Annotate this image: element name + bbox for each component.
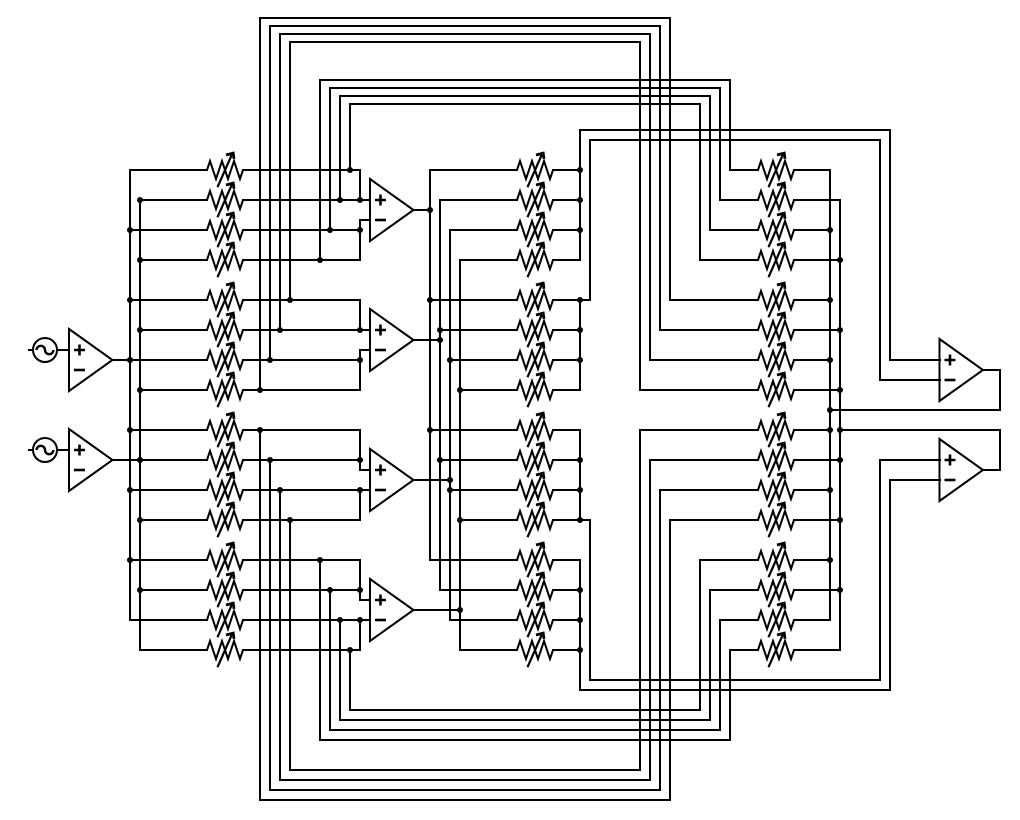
- wire M1 output: [413, 209, 430, 211]
- wire bank1 row7 left lead: [130, 359, 207, 361]
- wire loop row11 bottom: [280, 779, 650, 781]
- junction even bus y520: [837, 517, 843, 523]
- wire bank3 row8 left lead: [640, 389, 758, 391]
- bus bank2 rows5-8: [579, 300, 581, 390]
- wire bank1 row5 right lead: [243, 299, 360, 301]
- wire jog rows9-12: [580, 519, 590, 521]
- wire R1- input: [880, 379, 940, 381]
- wire loop row5 top: [290, 41, 640, 43]
- junction M4+ node: [357, 587, 363, 593]
- variable resistor W2.8: [517, 373, 553, 407]
- wire rows9-12 to R2+ route: [589, 520, 591, 680]
- wire loop row9 right: [669, 520, 671, 800]
- wire bank1 row14 right lead: [243, 589, 360, 591]
- junction bank2 bus y620: [577, 617, 583, 623]
- wire bank2 row4 right lead: [553, 259, 580, 261]
- wire bank1 row11 right lead: [243, 489, 360, 491]
- wire loop row11 right: [649, 460, 651, 780]
- wire bank3 row9 right lead: [794, 429, 830, 431]
- wire bank2 row14 left lead: [440, 589, 517, 591]
- AC source V2: [28, 438, 57, 462]
- wire row12 riser to M3- node: [359, 490, 361, 520]
- wire bank1 row13 left lead: [130, 559, 207, 561]
- junction row10 tap: [267, 457, 273, 463]
- variable resistor W3.11: [758, 473, 794, 507]
- wire loop row15 left: [339, 620, 341, 720]
- bus1 (A1 output column): [129, 170, 131, 620]
- junction even bus y460: [837, 457, 843, 463]
- wire bank1 row6 right lead: [243, 329, 360, 331]
- junction bank2 bus y590: [577, 587, 583, 593]
- wire bank1 row15 left lead: [130, 619, 207, 621]
- wire bank2 row9 right lead: [553, 429, 580, 431]
- variable resistor W2.13: [517, 543, 553, 577]
- wire loop row6 right: [649, 34, 651, 360]
- variable resistor W1.7: [207, 343, 243, 377]
- junction odd bus y560: [827, 557, 833, 563]
- junction M2- node: [357, 357, 363, 363]
- junction even bus y390: [837, 387, 843, 393]
- wire bank1 row2 left lead: [140, 199, 207, 201]
- wire bank1 row14 left lead: [140, 589, 207, 591]
- junction R2 feedback on even bus: [837, 427, 843, 433]
- junction row5 tap: [287, 297, 293, 303]
- wire bank3 row15 left lead: [720, 619, 758, 621]
- wire loop row13 left: [319, 560, 321, 740]
- junction M4 out: [457, 607, 463, 613]
- wire M3- input: [360, 489, 370, 491]
- bus2 (A2 output column): [139, 200, 141, 650]
- wire M4+ input: [360, 599, 370, 601]
- wire loop row3 right: [719, 88, 721, 200]
- bus M2 output column: [439, 200, 441, 590]
- wire bank3 row12 left lead: [670, 519, 758, 521]
- junction row9 tap: [257, 427, 263, 433]
- junction row3 tap: [327, 227, 333, 233]
- wire bank3 row13 right lead: [794, 559, 830, 561]
- wire bank2 row10 left lead: [440, 459, 517, 461]
- junction bank2 bus y330: [577, 327, 583, 333]
- wire row5 riser to M2+ node: [359, 300, 361, 330]
- variable resistor W3.6: [758, 313, 794, 347]
- junction bank2 bus y360: [577, 357, 583, 363]
- op-amp M2: [370, 309, 414, 371]
- junction row13 tap: [317, 557, 323, 563]
- wire row4 riser / M1- jog: [359, 220, 361, 260]
- junction M1 bus y430: [427, 427, 433, 433]
- wire bank1 row15 right lead: [243, 619, 360, 621]
- wire loop row1 left: [349, 104, 351, 170]
- variable resistor W2.7: [517, 343, 553, 377]
- variable resistor W3.2: [758, 183, 794, 217]
- wire bank2 row4 left lead: [460, 259, 517, 261]
- wire loop row12 bottom: [290, 769, 640, 771]
- wire bank2 row3 right lead: [553, 229, 580, 231]
- wire bank2 row9 left lead: [430, 429, 517, 431]
- variable resistor W3.1: [758, 153, 794, 187]
- wire bank3 row11 left lead: [660, 489, 758, 491]
- bus bank2 rows1-4 to R1+ route: [579, 130, 581, 260]
- junction odd bus y490: [827, 487, 833, 493]
- wire bank3 row13 left lead: [700, 559, 758, 561]
- junction bus1 y430: [127, 427, 133, 433]
- junction row7 tap: [267, 357, 273, 363]
- wire loop row10 bottom: [270, 789, 660, 791]
- wire loop row2 left: [339, 96, 341, 200]
- wire bank1 row5 left lead: [130, 299, 207, 301]
- variable resistor W1.14: [207, 573, 243, 607]
- wire bank1 row16 left lead: [140, 649, 207, 651]
- junction row12 tap: [287, 517, 293, 523]
- wire bank3 row9 left lead: [640, 429, 758, 431]
- junction M3 bus y490: [447, 487, 453, 493]
- wire M2 output: [413, 339, 440, 341]
- wire net rows13-16 bottom route: [580, 689, 890, 691]
- wire loop row4 left: [319, 80, 321, 260]
- junction bank2 bus y170: [577, 167, 583, 173]
- wire loop row10 left: [269, 460, 271, 790]
- junction row14 tap: [327, 587, 333, 593]
- wire down to R1-: [879, 140, 881, 380]
- wire R2- input: [890, 479, 940, 481]
- wire R1+ input: [890, 359, 940, 361]
- junction M2 bus y460: [437, 457, 443, 463]
- wire bank2 row8 right lead: [553, 389, 580, 391]
- wire bank3 row3 right lead: [794, 229, 830, 231]
- variable resistor W2.16: [517, 633, 553, 667]
- wire loop row12 left: [289, 520, 291, 770]
- junction bank2 bus y650: [577, 647, 583, 653]
- variable resistor W2.3: [517, 213, 553, 247]
- junction M1+ node: [357, 197, 363, 203]
- variable resistor W2.15: [517, 603, 553, 637]
- junction M4- node: [357, 617, 363, 623]
- variable resistor W3.4: [758, 243, 794, 277]
- wire bank2 row6 left lead: [440, 329, 517, 331]
- variable resistor W1.13: [207, 543, 243, 577]
- op-amp A2 (input buffer 2): [69, 429, 113, 491]
- junction bus1 y360: [127, 357, 133, 363]
- variable resistor W1.1: [207, 153, 243, 187]
- wire bank1 row3 left lead: [130, 229, 207, 231]
- wire bank2 row3 left lead: [450, 229, 517, 231]
- junction bus1 y560: [127, 557, 133, 563]
- junction row4 tap: [317, 257, 323, 263]
- wire bank1 row10 left lead: [140, 459, 207, 461]
- wire bank1 row16 right lead: [243, 649, 360, 651]
- wire down to R1+: [889, 130, 891, 360]
- junction row16 tap: [347, 647, 353, 653]
- wire R2+ input: [880, 459, 940, 461]
- junction M2+ node: [357, 327, 363, 333]
- wire loop row9 left: [259, 430, 261, 800]
- junction bus2 y590: [137, 587, 143, 593]
- wire R1 output: [984, 369, 1001, 371]
- wire loop row8 left: [259, 18, 261, 390]
- wire loop row11 left: [279, 490, 281, 780]
- junction even bus y590: [837, 587, 843, 593]
- wire R1 out down: [999, 370, 1001, 410]
- wire loop row3 left: [329, 88, 331, 230]
- wire bank1 row11 left lead: [130, 489, 207, 491]
- wire bank3 row6 left lead: [660, 329, 758, 331]
- variable resistor W1.5: [207, 283, 243, 317]
- junction M1 bus y300: [427, 297, 433, 303]
- variable resistor W2.2: [517, 183, 553, 217]
- junction bus1 y230: [127, 227, 133, 233]
- junction bus1 y490: [127, 487, 133, 493]
- variable resistor W2.6: [517, 313, 553, 347]
- wire bank3 row10 right lead: [794, 459, 840, 461]
- variable resistor W1.15: [207, 603, 243, 637]
- junction odd bus y430: [827, 427, 833, 433]
- wire row13 riser / M4+ jog: [359, 560, 361, 600]
- junction bank2 bus y460: [577, 457, 583, 463]
- junction even bus y260: [837, 257, 843, 263]
- wire bank2 row14 right lead: [553, 589, 580, 591]
- wire bank2 row15 left lead: [450, 619, 517, 621]
- wire loop row6 left: [279, 34, 281, 330]
- wire loop row16 left: [349, 650, 351, 710]
- variable resistor W1.16: [207, 633, 243, 667]
- wire bank2 row6 right lead: [553, 329, 580, 331]
- wire bank1 row12 left lead: [140, 519, 207, 521]
- wire bank1 row10 right lead: [243, 459, 360, 461]
- wire R2 output: [984, 469, 1001, 471]
- wire bank2 row13 left lead: [430, 559, 517, 561]
- wire M3+ input: [360, 469, 370, 471]
- wire V1 to A1+: [57, 349, 69, 351]
- wire bank3 row16 left lead: [730, 649, 758, 651]
- variable resistor W2.14: [517, 573, 553, 607]
- op-amp M4: [370, 579, 414, 641]
- variable resistor W2.5: [517, 283, 553, 317]
- wire loop row5 right: [639, 42, 641, 390]
- wire bank1 row9 right lead: [243, 429, 360, 431]
- wire bank3 row14 right lead: [794, 589, 840, 591]
- junction bus2 y520: [137, 517, 143, 523]
- wire bank3 row7 left lead: [650, 359, 758, 361]
- wire bank3 row16 right lead: [794, 649, 840, 651]
- wire up to R2+: [879, 460, 881, 680]
- wire M3 output: [413, 479, 450, 481]
- wire loop row7 top: [270, 25, 660, 27]
- wire bank2 row7 left lead: [450, 359, 517, 361]
- wire M4 output: [413, 609, 460, 611]
- wire bank2 row5 left lead: [430, 299, 517, 301]
- bus bank2 rows13-16 to R2- route: [579, 560, 581, 690]
- wire bank3 row7 right lead: [794, 359, 830, 361]
- wire bank2 row11 left lead: [450, 489, 517, 491]
- wire jog rows5-8: [580, 299, 590, 301]
- variable resistor W2.10: [517, 443, 553, 477]
- variable resistor W2.4: [517, 243, 553, 277]
- bus M4 output column: [459, 260, 461, 650]
- wire M4- input: [360, 619, 370, 621]
- variable resistor W1.12: [207, 503, 243, 537]
- wire loop row8 top: [260, 17, 670, 19]
- wire bank3 row5 right lead: [794, 299, 830, 301]
- wire loop row4 top: [320, 79, 730, 81]
- wire loop row5 left: [289, 42, 291, 300]
- wire loop row2 top: [340, 95, 710, 97]
- wire bank3 row4 left lead: [700, 259, 758, 261]
- wire V2 to A2+: [57, 449, 69, 451]
- wire up to R2-: [889, 480, 891, 690]
- junction bank2 bus y490: [577, 487, 583, 493]
- op-amp M1: [370, 179, 414, 241]
- wire bank2 row2 left lead: [440, 199, 517, 201]
- junction M3+ node: [357, 457, 363, 463]
- wire A2 out to bus2: [113, 459, 140, 461]
- junction M1 out: [427, 207, 433, 213]
- junction row1 tap: [347, 167, 353, 173]
- junction bus2 y330: [137, 327, 143, 333]
- variable resistor W3.13: [758, 543, 794, 577]
- variable resistor W1.4: [207, 243, 243, 277]
- op-amp A1 (input buffer 1): [69, 329, 113, 391]
- wire bank1 row6 left lead: [140, 329, 207, 331]
- wire bank1 row8 left lead: [140, 389, 207, 391]
- wire bank2 row1 left lead: [430, 169, 517, 171]
- wire loop row14 left: [329, 590, 331, 730]
- bus bank3 odd rows (R1 net): [829, 170, 831, 620]
- variable resistor W3.8: [758, 373, 794, 407]
- junction bus2 y390: [137, 387, 143, 393]
- op-amp M3: [370, 449, 414, 511]
- wire bank3 row2 left lead: [720, 199, 758, 201]
- junction bus2 y460: [137, 457, 143, 463]
- wire loop row1 top: [350, 103, 700, 105]
- wire loop row8 right: [669, 18, 671, 300]
- junction A2 out on bus2: [137, 457, 143, 463]
- variable resistor W3.9: [758, 413, 794, 447]
- variable resistor W1.10: [207, 443, 243, 477]
- junction row6 tap: [277, 327, 283, 333]
- wire bank3 row14 left lead: [710, 589, 758, 591]
- wire bank1 row8 right lead: [243, 389, 360, 391]
- variable resistor W3.10: [758, 443, 794, 477]
- wire bank2 row13 right lead: [553, 559, 580, 561]
- wire bank2 row16 left lead: [460, 649, 517, 651]
- wire bank3 row1 left lead: [730, 169, 758, 171]
- op-amp R1 (output 1): [940, 339, 984, 401]
- wire loop row15 right: [709, 590, 711, 720]
- wire loop row7 right: [659, 26, 661, 330]
- wire bank1 row13 right lead: [243, 559, 360, 561]
- wire bank2 row1 right lead: [553, 169, 580, 171]
- wire bank2 row8 left lead: [460, 389, 517, 391]
- wire bank2 row12 right lead: [553, 519, 580, 521]
- wire loop row13 right: [729, 650, 731, 740]
- variable resistor W3.15: [758, 603, 794, 637]
- junction M1- node: [357, 227, 363, 233]
- bus M1 output column: [429, 170, 431, 560]
- wire loop row6 top: [280, 33, 650, 35]
- wire M1+ input: [360, 199, 370, 201]
- junction bus2 y200: [137, 197, 143, 203]
- junction row15 tap: [337, 617, 343, 623]
- junction M3- node: [357, 487, 363, 493]
- variable resistor W1.6: [207, 313, 243, 347]
- wire bank2 row10 right lead: [553, 459, 580, 461]
- wire loop row7 left: [269, 26, 271, 360]
- junction M2 out: [437, 337, 443, 343]
- wire bank1 row2 right lead: [243, 199, 360, 201]
- wire R2 out up: [999, 430, 1001, 470]
- junction bank2 bus y520: [577, 517, 583, 523]
- junction even bus y330: [837, 327, 843, 333]
- variable resistor W2.12: [517, 503, 553, 537]
- junction A1 out on bus1: [127, 357, 133, 363]
- junction row8 tap: [257, 387, 263, 393]
- wire bank3 row2 right lead: [794, 199, 840, 201]
- wire row1 riser to M1+ node: [359, 170, 361, 200]
- junction M4 bus y520: [457, 517, 463, 523]
- wire bank1 row7 right lead: [243, 359, 360, 361]
- bus bank3 even rows (R2 net): [839, 200, 841, 650]
- wire bank3 row5 left lead: [670, 299, 758, 301]
- wire M1- input: [360, 219, 370, 221]
- wire loop row9 bottom: [260, 799, 670, 801]
- wire bank3 row11 right lead: [794, 489, 830, 491]
- wire row16 riser to M4- node: [359, 620, 361, 650]
- wire loop row13 bottom: [320, 739, 730, 741]
- wire M2+ input: [360, 329, 370, 331]
- wire bank1 row1 left lead: [130, 169, 207, 171]
- wire loop row3 top: [330, 87, 720, 89]
- variable resistor W3.12: [758, 503, 794, 537]
- wire bank3 row8 right lead: [794, 389, 840, 391]
- wire net rows5-8 top route: [590, 139, 880, 141]
- wire bank1 row12 right lead: [243, 519, 360, 521]
- variable resistor W1.3: [207, 213, 243, 247]
- wire loop row4 right: [729, 80, 731, 170]
- variable resistor W3.5: [758, 283, 794, 317]
- junction bank2 bus y230: [577, 227, 583, 233]
- wire bank3 row1 right lead: [794, 169, 830, 171]
- wire rows5-8 to R1- route: [589, 140, 591, 300]
- AC source V1: [28, 338, 57, 362]
- wire row9 riser / M3+ jog: [359, 430, 361, 470]
- wire bank3 row15 right lead: [794, 619, 830, 621]
- wire bank2 row15 right lead: [553, 619, 580, 621]
- wire loop row16 bottom: [350, 709, 700, 711]
- wire bank3 row12 right lead: [794, 519, 840, 521]
- junction bank2 bus y200: [577, 197, 583, 203]
- junction M3 out: [447, 477, 453, 483]
- wire row8 riser / M2- jog: [359, 350, 361, 390]
- variable resistor W1.2: [207, 183, 243, 217]
- variable resistor W2.1: [517, 153, 553, 187]
- wire bank2 row2 right lead: [553, 199, 580, 201]
- wire bank1 row4 right lead: [243, 259, 360, 261]
- variable resistor W1.11: [207, 473, 243, 507]
- junction bus1 y300: [127, 297, 133, 303]
- wire loop row15 bottom: [340, 719, 710, 721]
- wire bank1 row1 right lead: [243, 169, 360, 171]
- wire bank1 row9 left lead: [130, 429, 207, 431]
- junction M2 bus y330: [437, 327, 443, 333]
- wire R1 feedback line: [830, 409, 1000, 411]
- op-amp R2 (output 2): [940, 439, 984, 501]
- junction row11 tap: [277, 487, 283, 493]
- variable resistor W2.9: [517, 413, 553, 447]
- junction row2 tap: [337, 197, 343, 203]
- junction odd bus y300: [827, 297, 833, 303]
- variable resistor W1.9: [207, 413, 243, 447]
- wire bank2 row7 right lead: [553, 359, 580, 361]
